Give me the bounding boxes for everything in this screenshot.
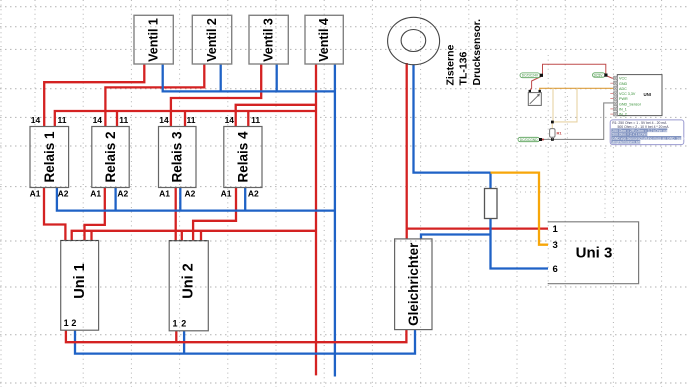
svg-text:DC5V: DC5V [594, 73, 604, 77]
wire blue A2 bus [57, 188, 335, 211]
wire orange to uni3 pin3 [491, 173, 549, 245]
wire relais2 A2 stub [114, 188, 116, 211]
wire sensor red to gleichrichter [406, 63, 408, 239]
junction mini node resistor top [551, 121, 554, 124]
svg-text:Zisterne: Zisterne [444, 44, 456, 85]
wire mini orange sensor to adc [540, 88, 614, 90]
relay Relais 2 body [94, 128, 131, 189]
svg-text:Relais 2: Relais 2 [103, 131, 118, 182]
connector J3 mini bottom-left [518, 137, 544, 142]
valve Ventil 3 [249, 15, 288, 64]
svg-text:PWR: PWR [619, 97, 628, 101]
node uni2 top edge grid overlap [169, 240, 208, 242]
wire blue to gleichrichter top [421, 235, 491, 239]
svg-text:14: 14 [93, 115, 103, 125]
wire sensor blue [414, 65, 491, 173]
svg-text:Ventil 1: Ventil 1 [147, 18, 161, 62]
wire uni2 pin1 stub [175, 331, 177, 342]
svg-text:A1: A1 [90, 189, 101, 199]
wire mini red connector to sensor [530, 77, 541, 91]
svg-text:11: 11 [119, 115, 128, 125]
svg-text:A2: A2 [117, 189, 128, 199]
resistor between sensor and gnd [485, 189, 498, 219]
junction mini node resistor bottom [551, 138, 554, 141]
svg-text:11: 11 [187, 115, 196, 125]
box Uni 3 body [550, 223, 641, 286]
wire resistor bottom to uni3 pin6 [491, 218, 549, 269]
wire ventil4 red long vertical [315, 64, 317, 375]
svg-text:UNI: UNI [644, 92, 652, 97]
relay Relais 4 body [226, 128, 264, 189]
svg-text:GND: GND [619, 82, 628, 86]
wire red pin11 bus [55, 111, 316, 127]
svg-text:Relais 1: Relais 1 [42, 131, 57, 183]
wire red level bus to uni boxes [72, 231, 316, 241]
svg-text:1: 1 [553, 224, 559, 235]
svg-text:angeschlossen sein: angeschlossen sein [612, 140, 642, 144]
wire blue long vertical [334, 64, 336, 377]
svg-text:Ventil 3: Ventil 3 [262, 18, 276, 62]
valve Ventil 2 [192, 15, 231, 64]
connector J2 mini near chip [593, 73, 608, 78]
svg-text:DC/DC24V: DC/DC24V [522, 74, 539, 78]
IC UNI mini [617, 75, 662, 116]
svg-text:Relais 3: Relais 3 [170, 131, 185, 183]
wire ventil2 red to relais2 pin14 [105, 64, 204, 127]
svg-text:TL-136: TL-136 [458, 51, 470, 85]
svg-text:A1: A1 [30, 189, 41, 199]
wire mini tan resistor top lead [551, 122, 553, 129]
wire relais1 A1 to uni1 [44, 188, 65, 241]
wire uni2 pin2 stub [183, 331, 185, 354]
svg-text:11: 11 [251, 115, 260, 125]
sensor symbol mini [528, 90, 541, 106]
svg-text:R1: R1 [557, 131, 563, 136]
valve Ventil 1 [134, 15, 173, 64]
svg-text:DC/DCGND: DC/DCGND [520, 138, 538, 142]
relay Relais 1 [30, 127, 69, 188]
box Uni 1 [61, 241, 99, 331]
svg-text:A2: A2 [184, 189, 195, 199]
wire ventil1 red to relais1 pin14 [44, 64, 144, 127]
wire mini tan divider loop [553, 88, 577, 122]
valve Ventil 1 body [136, 17, 175, 66]
svg-text:Ventil 4: Ventil 4 [317, 18, 331, 62]
wire ventil2 blue stub [220, 64, 222, 91]
svg-text:Uni 3: Uni 3 [576, 245, 613, 262]
svg-text:A2: A2 [248, 189, 259, 199]
svg-text:Gleichrichter: Gleichrichter [406, 242, 421, 326]
box Uni 2 [169, 241, 208, 331]
svg-text:Uni 2: Uni 2 [181, 263, 197, 298]
box Uni 1 body [63, 242, 101, 332]
svg-text:A1: A1 [159, 189, 170, 199]
svg-text:2: 2 [71, 318, 76, 328]
sensor circle body [388, 17, 440, 64]
svg-text:Drucksensor.: Drucksensor. [471, 19, 483, 86]
svg-text:Uni 1: Uni 1 [72, 263, 88, 298]
svg-text:2: 2 [181, 319, 186, 329]
wire red bottom bus uni1 uni2 gleichrichter [66, 330, 407, 343]
svg-text:A2: A2 [58, 189, 69, 199]
wire uni1 stub4 [90, 231, 92, 241]
svg-text:GND_Sensor: GND_Sensor [619, 102, 642, 106]
node uni1 top edge grid overlap [61, 240, 99, 242]
svg-text:14: 14 [31, 115, 41, 125]
valve Ventil 2 body [194, 17, 233, 66]
wire uni2 stub4 [200, 231, 202, 241]
svg-text:IN_2: IN_2 [619, 113, 627, 117]
wire resistor top lead [489, 173, 491, 189]
relay Relais 3 [159, 127, 197, 188]
svg-text:Ventil 2: Ventil 2 [205, 18, 219, 62]
wire blue top bus ventil1-4 [163, 64, 335, 91]
valve Ventil 4 [305, 15, 343, 64]
relay Relais 3 body [160, 128, 198, 189]
svg-text:VCC: VCC [619, 77, 627, 81]
svg-text:14: 14 [159, 115, 169, 125]
wire relais4 A2 stub [244, 188, 246, 211]
wire relais4 A1 to uni2 [193, 188, 236, 241]
wire mini red vcc top run [542, 64, 606, 75]
svg-text:VCC 3,3V: VCC 3,3V [619, 92, 636, 96]
svg-text:11: 11 [58, 115, 67, 125]
wire uni2 stub2 [181, 231, 183, 241]
svg-text:14: 14 [225, 115, 235, 125]
resistor R1 mini [550, 129, 555, 138]
relay Relais 4 [224, 127, 262, 188]
IC pin labels mini [619, 77, 642, 117]
wire mini red vcc pin link [607, 76, 616, 78]
svg-text:1: 1 [172, 319, 177, 329]
wire relais4 pin11 stub [247, 111, 249, 127]
box Uni 2 body [171, 243, 210, 333]
wire relais2 pin11 stub [116, 111, 118, 127]
valve Ventil 3 body [251, 17, 290, 66]
svg-text:ADC: ADC [619, 87, 627, 91]
svg-text:3: 3 [553, 240, 558, 251]
svg-text:A1: A1 [221, 189, 232, 199]
wire relais2 A1 to uni1 [85, 188, 105, 241]
relay Relais 2 [92, 127, 129, 188]
connector J1 mini top-left [520, 73, 543, 78]
IC pin red ticks mini [610, 83, 613, 114]
wire ventil4 red branch to relais4 pin14 [236, 105, 316, 127]
valve Ventil 4 body [307, 17, 345, 66]
relay Relais 1 body [32, 128, 71, 189]
svg-text:6: 6 [553, 264, 558, 275]
box Gleichrichter [395, 239, 432, 330]
wire ventil3 red to relais3 pin14 [171, 64, 261, 127]
wire mini gray gnd run [542, 103, 615, 139]
box Uni 3 [548, 222, 638, 284]
svg-text:Relais 4: Relais 4 [235, 131, 250, 183]
wire ventil3 blue stub [276, 64, 278, 91]
wire mini resistor bottom lead [551, 137, 553, 139]
sensor circle Zisterne TL-136 [388, 17, 440, 64]
wire red to uni3 pin1 [407, 227, 548, 229]
wire relais3 A2 stub [179, 188, 181, 211]
note box mini [610, 120, 688, 145]
wire relais3 pin11 stub [184, 111, 186, 127]
svg-text:IN_1: IN_1 [619, 108, 627, 112]
box Gleichrichter body [396, 241, 433, 332]
svg-text:1: 1 [64, 318, 69, 328]
IC pin headers mini [614, 76, 618, 116]
wire blue bottom bus [75, 330, 415, 354]
wire relais3 A1 to uni2 [175, 188, 177, 241]
